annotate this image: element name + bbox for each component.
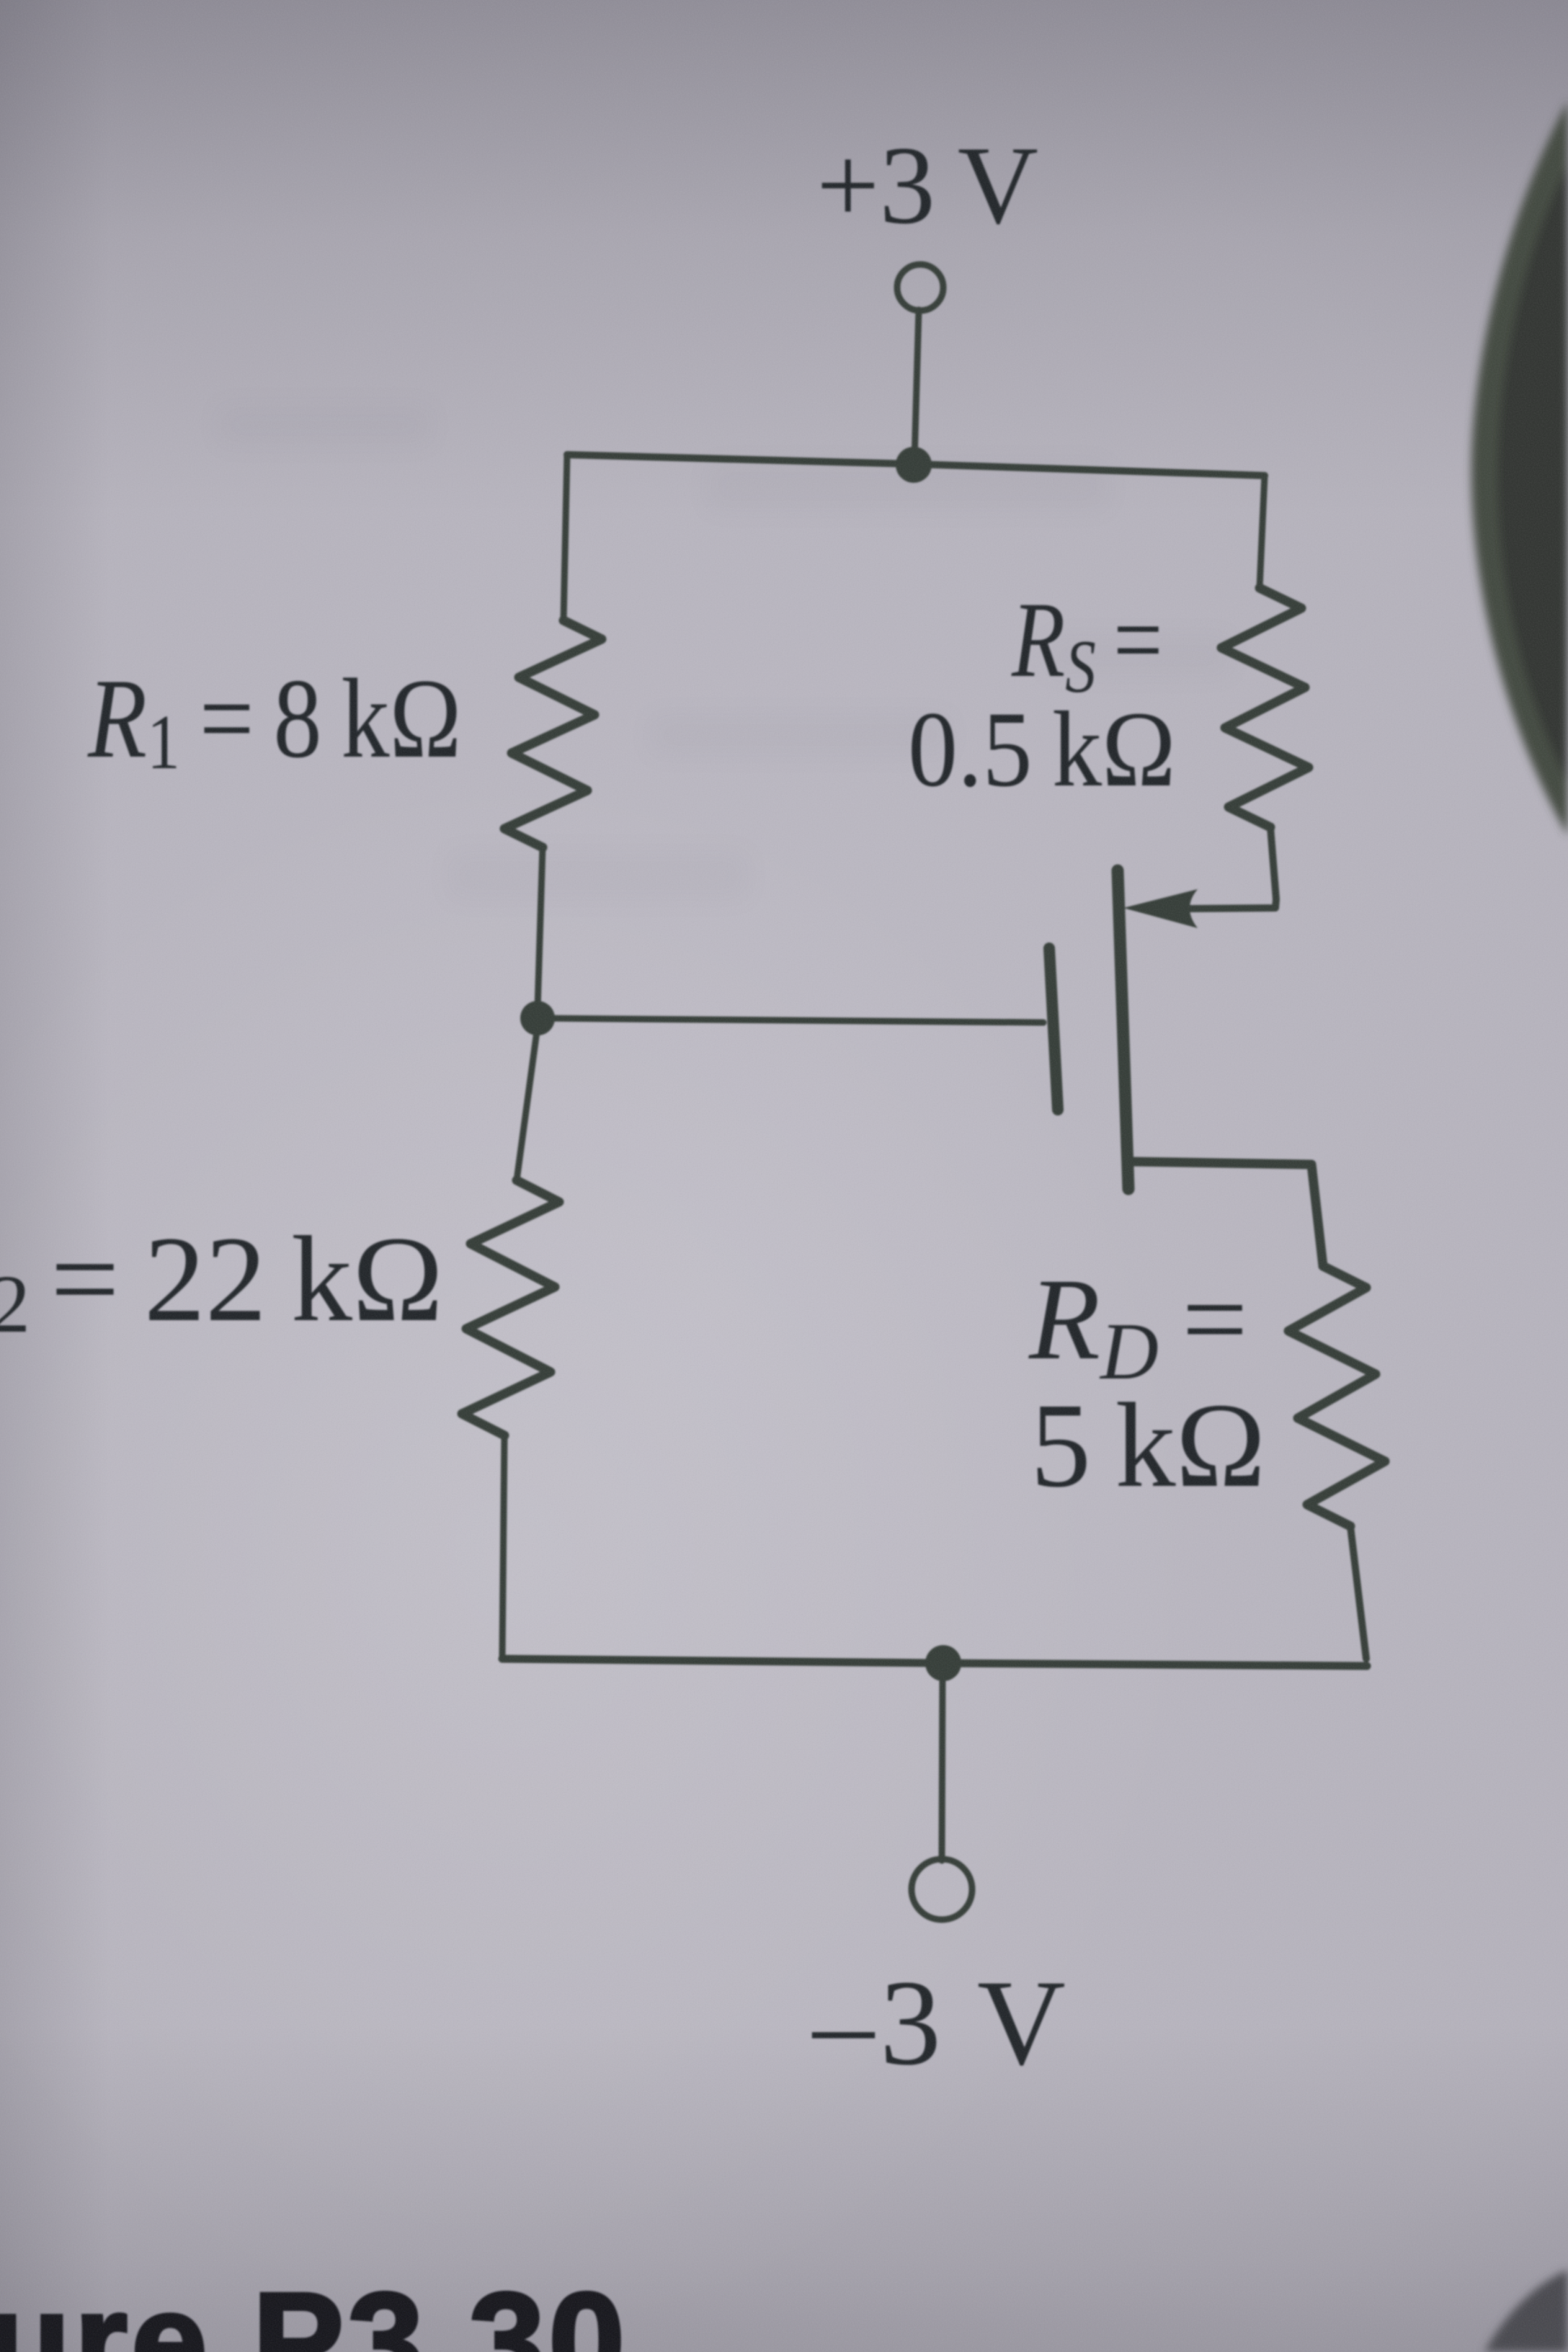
wire: right drop from top rail to RS [1260, 476, 1265, 588]
wire: top rail [567, 455, 1265, 476]
wire: bottom rail [502, 1659, 1367, 1666]
circuit ink [462, 264, 1385, 1920]
wire: R1 bottom to gate node [538, 847, 543, 1009]
wire: R2 top lead from gate node [517, 1026, 538, 1180]
resistor RS [1221, 588, 1309, 827]
wire: RS bottom lead down and left to source arrow [1189, 827, 1276, 909]
wire: drain wire from channel to RD [1131, 1162, 1323, 1266]
+3 V supply terminal [897, 264, 943, 311]
node: top junction dot [896, 447, 932, 483]
transistor Q1 source arrow [1123, 889, 1198, 928]
wire: R2 bottom lead to bottom rail [502, 1435, 504, 1657]
faint show-through ghosts [216, 404, 1232, 901]
-3 V supply terminal [912, 1859, 972, 1920]
resistor R2 [462, 1180, 559, 1435]
wire: +3V lead down to top rail [914, 310, 919, 461]
resistor R1 [504, 620, 602, 847]
node: gate node dot [520, 1001, 555, 1035]
dark background crescent along right page edge [1471, 101, 1568, 836]
resistor RD [1288, 1266, 1385, 1526]
dark bottom-right corner [1484, 2270, 1568, 2352]
wire: gate wire from node to transistor gate [538, 1018, 1043, 1023]
node: bottom junction dot [925, 1645, 961, 1681]
wire: RD bottom lead to bottom rail [1350, 1526, 1366, 1659]
wire: -3V lead [942, 1679, 943, 1861]
transistor Q1 gate bar [1049, 948, 1058, 1110]
transistor Q1 channel bar [1118, 870, 1128, 1189]
wire: left drop from top rail to R1 [563, 455, 567, 621]
